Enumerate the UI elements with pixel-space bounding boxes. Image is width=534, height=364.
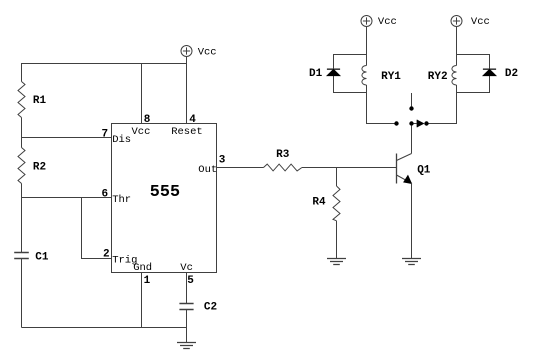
svg-text:3: 3 (219, 154, 226, 166)
svg-text:1: 1 (144, 275, 151, 287)
wire left rail to R1 (21, 63, 23, 82)
wire R1 to Dis node (21, 118, 23, 138)
relay contact common node (409, 121, 413, 153)
ground Q1 (402, 259, 421, 265)
pin 8 lead (141, 64, 143, 124)
resistor R1 (18, 82, 25, 118)
svg-text:RY1: RY1 (381, 71, 401, 83)
svg-text:RY2: RY2 (428, 71, 448, 83)
svg-text:6: 6 (102, 188, 109, 200)
wire RY1 coil to contact (367, 85, 397, 124)
wire R2 to Thr node (21, 184, 23, 198)
wire Vcc to RY1 coil (366, 27, 368, 66)
svg-text:D2: D2 (505, 68, 518, 80)
svg-text:D1: D1 (309, 68, 323, 80)
svg-text:Thr: Thr (112, 194, 131, 206)
wire C2 to ground (186, 310, 188, 343)
relay coil RY2 (452, 66, 457, 86)
wire Thr pin6 (22, 197, 112, 199)
wire node to R2 (21, 138, 23, 148)
resistor R3 (264, 164, 302, 171)
svg-text:R1: R1 (33, 95, 47, 107)
power Vcc symbol RY1 (361, 16, 372, 27)
wire C1 to bottom rail (21, 259, 23, 328)
wire Q1 emitter to ground (411, 183, 413, 259)
relay coil RY1 (362, 66, 367, 86)
wire top Vcc rail (22, 63, 187, 65)
svg-text:R4: R4 (312, 196, 326, 208)
svg-text:Vc: Vc (180, 262, 193, 274)
capacitor C2 (179, 304, 193, 310)
capacitor C1 (14, 253, 29, 259)
svg-text:2: 2 (103, 248, 110, 260)
svg-text:7: 7 (102, 128, 109, 140)
relay contact pole (409, 93, 413, 111)
ground R4 (327, 259, 346, 265)
svg-text:Dis: Dis (112, 134, 131, 146)
wire Dis pin7 (22, 137, 112, 139)
svg-text:Vcc: Vcc (198, 46, 217, 58)
svg-text:Out: Out (198, 164, 217, 176)
svg-text:8: 8 (144, 114, 151, 126)
svg-text:C1: C1 (35, 251, 49, 263)
wire Out pin3 (217, 167, 264, 169)
svg-text:R2: R2 (33, 161, 46, 173)
wire Vcc to RY2 coil (456, 27, 458, 66)
ground C2 (177, 343, 196, 349)
diode D1 (327, 69, 340, 75)
op-amp U1 555 box (112, 124, 217, 273)
svg-text:R3: R3 (276, 149, 290, 161)
power Vcc symbol RY2 (451, 16, 462, 27)
wire R4 to ground (336, 221, 338, 259)
wire Thr node to C1 (21, 198, 23, 253)
svg-text:C2: C2 (204, 302, 217, 314)
relay contact left throw (394, 121, 398, 125)
pin 1 lead (141, 273, 143, 328)
wire D2 loop (457, 55, 490, 93)
svg-text:Reset: Reset (171, 126, 203, 138)
pin 4 lead (186, 57, 188, 124)
svg-text:Vcc: Vcc (471, 16, 490, 28)
wire bottom ground rail (22, 327, 187, 329)
wire R3 to Q1 base (302, 167, 397, 169)
diode D2 (483, 69, 496, 75)
svg-text:555: 555 (150, 183, 180, 202)
wire RY2 coil to contact (427, 85, 457, 124)
resistor R2 (18, 148, 25, 184)
resistor R4 (333, 186, 340, 221)
relay contact arrow (414, 120, 424, 127)
wire D1 loop (334, 55, 367, 93)
wire R4 top lead (336, 168, 338, 187)
wire Trig branch (82, 198, 112, 259)
svg-text:Vcc: Vcc (132, 126, 151, 138)
svg-text:5: 5 (187, 275, 194, 287)
svg-text:Gnd: Gnd (133, 262, 152, 274)
pin 5 lead (186, 273, 188, 304)
svg-text:Vcc: Vcc (378, 16, 397, 28)
power Vcc symbol middle (181, 46, 192, 57)
relay contact right throw (424, 121, 428, 125)
transistor Q1 (397, 126, 412, 184)
svg-text:4: 4 (189, 114, 196, 126)
svg-text:Q1: Q1 (417, 165, 431, 177)
